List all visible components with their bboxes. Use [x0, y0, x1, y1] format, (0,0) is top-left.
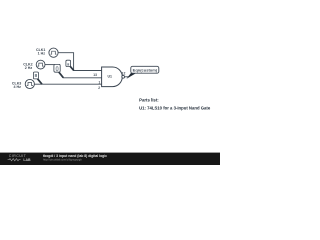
svg-text:13: 13	[93, 73, 97, 77]
svg-text:1: 1	[99, 81, 101, 85]
svg-text:4 Hz: 4 Hz	[14, 85, 22, 89]
svg-text:LAB: LAB	[23, 158, 31, 162]
svg-text:Eqn(custom): Eqn(custom)	[133, 67, 158, 72]
callout tail on output node	[127, 73, 138, 79]
output wire	[125, 76, 130, 78]
svg-text:2: 2	[98, 86, 100, 90]
wire CLK3 to gate pin 2	[34, 83, 101, 85]
probe box on CLK3 node	[33, 72, 38, 79]
svg-text:U1: 74LS10 for a 3-input Nand: U1: 74LS10 for a 3-input Nand Gate	[139, 105, 211, 110]
svg-text:http://circuitlab.com/c/6gmgnp: http://circuitlab.com/c/6gmgnpgb	[43, 157, 82, 161]
probe box on CLK2 node	[54, 64, 60, 72]
svg-text:tbogdi / 3 input nand (lab 8): tbogdi / 3 input nand (lab 8) digital lo…	[43, 154, 107, 158]
svg-text:1 Hz: 1 Hz	[38, 51, 46, 55]
svg-text:12: 12	[122, 72, 126, 76]
clock source CLK1 label	[36, 48, 45, 55]
wire CLK2 to gate pin 1	[45, 64, 60, 66]
callout box Eqn(custom)	[131, 66, 159, 73]
wire CLK1 to gate pin 13	[58, 53, 102, 71]
nand gate U1 body	[102, 67, 123, 87]
svg-text:U1: U1	[108, 75, 113, 79]
wire CLK2 lower segment to gate pin 1	[63, 77, 102, 79]
probe needle on CLK2 node	[59, 72, 64, 78]
clock source CLK1	[49, 48, 58, 57]
clock source CLK2	[36, 60, 45, 69]
clock source CLK2 label	[23, 62, 32, 69]
svg-text:2 Hz: 2 Hz	[25, 66, 33, 70]
probe box on CLK1 node	[66, 60, 71, 66]
probe needle on CLK3 node	[37, 78, 42, 84]
clock source CLK3 label	[12, 82, 21, 89]
clock source CLK3	[25, 79, 34, 88]
circuitlab logo resistor zigzag	[8, 159, 21, 161]
svg-text:Parts list:: Parts list:	[139, 98, 159, 103]
probe needle on CLK1 node	[69, 65, 74, 70]
nand gate output bubble	[122, 75, 125, 78]
footer bar	[0, 153, 220, 165]
